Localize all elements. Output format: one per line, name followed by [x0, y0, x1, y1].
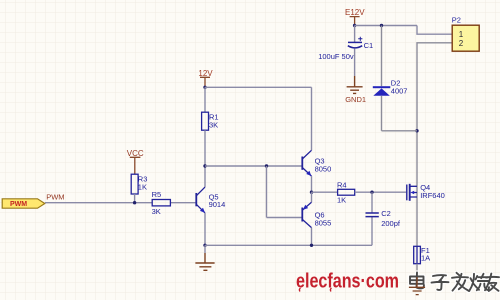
- fuse F1: [414, 246, 421, 263]
- capacitor C1: [348, 37, 363, 48]
- diode D2: [373, 86, 391, 96]
- transistor Q3: [302, 150, 311, 176]
- svg-text:1K: 1K: [138, 183, 147, 192]
- mosfet Q4: [407, 184, 417, 201]
- wire: [267, 217, 302, 219]
- junction: [265, 164, 268, 167]
- svg-text:E12V: E12V: [345, 8, 365, 17]
- junction: [310, 244, 313, 247]
- watermark elecfans.com: [296, 270, 399, 293]
- wire: [205, 86, 312, 88]
- wire: [204, 130, 206, 187]
- wire: [381, 26, 383, 87]
- transistor Q5: [196, 187, 205, 213]
- wire: [371, 192, 373, 213]
- power VCC: [127, 149, 144, 174]
- wire: [354, 48, 356, 76]
- ground GND1: [345, 76, 366, 104]
- svg-text:200pf: 200pf: [381, 219, 401, 228]
- junction: [203, 244, 206, 247]
- svg-text:8050: 8050: [315, 164, 332, 173]
- wire: [311, 176, 313, 192]
- svg-text:C1: C1: [364, 41, 374, 50]
- watermark chinese 电子发烧友: [410, 273, 499, 292]
- wire: [355, 191, 407, 193]
- wire: [417, 43, 453, 247]
- junction: [310, 191, 313, 194]
- wire: [170, 202, 196, 204]
- port PWM: [2, 199, 45, 208]
- junction: [203, 86, 206, 89]
- svg-text:4007: 4007: [391, 87, 408, 96]
- wire: [371, 217, 373, 246]
- junction: [380, 24, 383, 27]
- junction: [203, 164, 206, 167]
- svg-text:2: 2: [459, 39, 464, 48]
- wire: [354, 26, 356, 43]
- wire: [355, 25, 417, 27]
- wire: [311, 228, 313, 246]
- wire: [417, 26, 453, 35]
- wire: [134, 194, 136, 203]
- resistor R4: [338, 189, 355, 195]
- wire: [205, 244, 372, 246]
- junction: [133, 201, 136, 204]
- svg-text:R4: R4: [337, 180, 347, 189]
- svg-text:1A: 1A: [421, 253, 430, 262]
- capacitor C2: [366, 213, 379, 217]
- transistor Q6: [302, 202, 311, 227]
- junction: [353, 24, 356, 27]
- svg-text:12V: 12V: [198, 69, 213, 78]
- junction: [370, 191, 373, 194]
- ground: [409, 277, 425, 295]
- svg-text:IRF640: IRF640: [420, 191, 445, 200]
- wire: [382, 130, 418, 132]
- wire: [311, 87, 313, 150]
- svg-text:PWM: PWM: [46, 193, 64, 202]
- resistor R3: [131, 174, 138, 194]
- svg-text:GND1: GND1: [345, 95, 366, 104]
- svg-text:elecfans·com: elecfans·com: [296, 270, 399, 293]
- svg-text:3K: 3K: [209, 120, 218, 129]
- power 12V: [198, 69, 213, 87]
- wire: [204, 213, 206, 245]
- wire: [312, 191, 338, 193]
- connector P2: [452, 25, 479, 51]
- svg-text:VCC: VCC: [127, 149, 144, 158]
- wire: [45, 202, 152, 204]
- svg-text:PWM: PWM: [10, 201, 27, 208]
- svg-text:8055: 8055: [315, 219, 332, 228]
- svg-text:P2: P2: [452, 16, 461, 25]
- wire: [205, 165, 302, 167]
- wire: [381, 96, 383, 131]
- svg-text:9014: 9014: [209, 200, 226, 209]
- wire: [266, 166, 268, 218]
- junction: [415, 129, 418, 132]
- wire: [204, 87, 206, 112]
- wire: [311, 192, 313, 202]
- svg-text:100uF 50v: 100uF 50v: [318, 52, 354, 61]
- power E12V: [345, 8, 365, 26]
- svg-text:R5: R5: [152, 190, 162, 199]
- svg-text:C2: C2: [381, 209, 391, 218]
- resistor R1: [202, 112, 209, 130]
- ground: [195, 245, 214, 270]
- svg-text:3K: 3K: [152, 207, 161, 216]
- resistor R5: [152, 200, 170, 206]
- wire: [416, 264, 418, 277]
- svg-text:1K: 1K: [337, 196, 346, 205]
